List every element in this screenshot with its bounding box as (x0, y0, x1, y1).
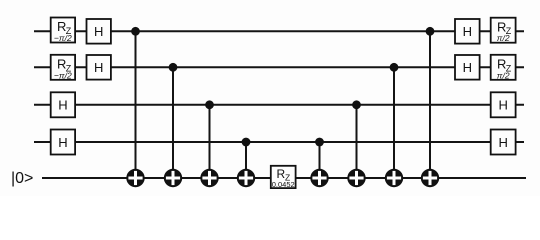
gate H q2 right (491, 92, 516, 117)
gate H q3 left (51, 130, 75, 155)
control dot C2 q1 (169, 63, 178, 72)
wire CNOT1 vertical (135, 31, 137, 178)
control dot C6 q2 (352, 100, 361, 109)
control dot C7 q1 (390, 63, 399, 72)
svg-text:−π/2: −π/2 (54, 33, 72, 43)
gate RZ(0.0452) q4 (271, 166, 296, 189)
svg-text:0.0452: 0.0452 (272, 180, 295, 189)
gate H q2 left (51, 92, 75, 117)
wire CNOT6 vertical (356, 105, 358, 178)
CNOT target X8 (421, 169, 439, 187)
svg-text:H: H (463, 24, 472, 39)
control dot C1 q0 (131, 27, 140, 36)
gate H q3 right (491, 130, 516, 155)
gate RZ(-pi/2) q1 (51, 55, 75, 81)
gate H q0 col2 (87, 19, 111, 44)
wire CNOT8 vertical (429, 31, 431, 178)
control dot C5 q3 (315, 138, 324, 147)
CNOT target X2 (164, 169, 182, 187)
CNOT target X6 (347, 169, 365, 187)
wire CNOT4 vertical (245, 142, 247, 178)
svg-text:|0>: |0> (11, 170, 33, 187)
svg-text:π/2: π/2 (497, 33, 510, 43)
svg-text:H: H (58, 98, 67, 113)
svg-text:π/2: π/2 (497, 70, 510, 80)
svg-text:H: H (463, 60, 472, 75)
gate RZ(pi/2) q1 (491, 55, 516, 81)
gate H q0 right (455, 19, 480, 44)
control dot C8 q0 (426, 27, 435, 36)
wire q4 (42, 177, 526, 179)
wire CNOT2 vertical (172, 67, 174, 178)
svg-text:H: H (499, 135, 508, 150)
CNOT target X1 (126, 169, 144, 187)
gate RZ(-pi/2) q0 (51, 18, 75, 44)
gate RZ(pi/2) q0 (491, 18, 516, 44)
wire q2 (34, 104, 524, 106)
gate H q1 col2 (87, 55, 111, 80)
wire q0 (34, 30, 524, 32)
wire CNOT5 vertical (319, 142, 321, 178)
CNOT target X5 (310, 169, 328, 187)
control dot C4 q3 (242, 138, 251, 147)
CNOT target X3 (200, 169, 218, 187)
wire q3 (34, 141, 524, 143)
control dot C3 q2 (205, 100, 214, 109)
wire CNOT7 vertical (393, 67, 395, 178)
svg-text:H: H (94, 60, 103, 75)
CNOT target X7 (385, 169, 403, 187)
gate H q1 right (455, 55, 480, 80)
svg-text:H: H (94, 24, 103, 39)
wire CNOT3 vertical (209, 105, 211, 178)
svg-text:H: H (499, 98, 508, 113)
CNOT target X4 (237, 169, 255, 187)
wire q1 (34, 66, 524, 68)
svg-text:H: H (58, 135, 67, 150)
svg-text:−π/2: −π/2 (54, 70, 72, 80)
